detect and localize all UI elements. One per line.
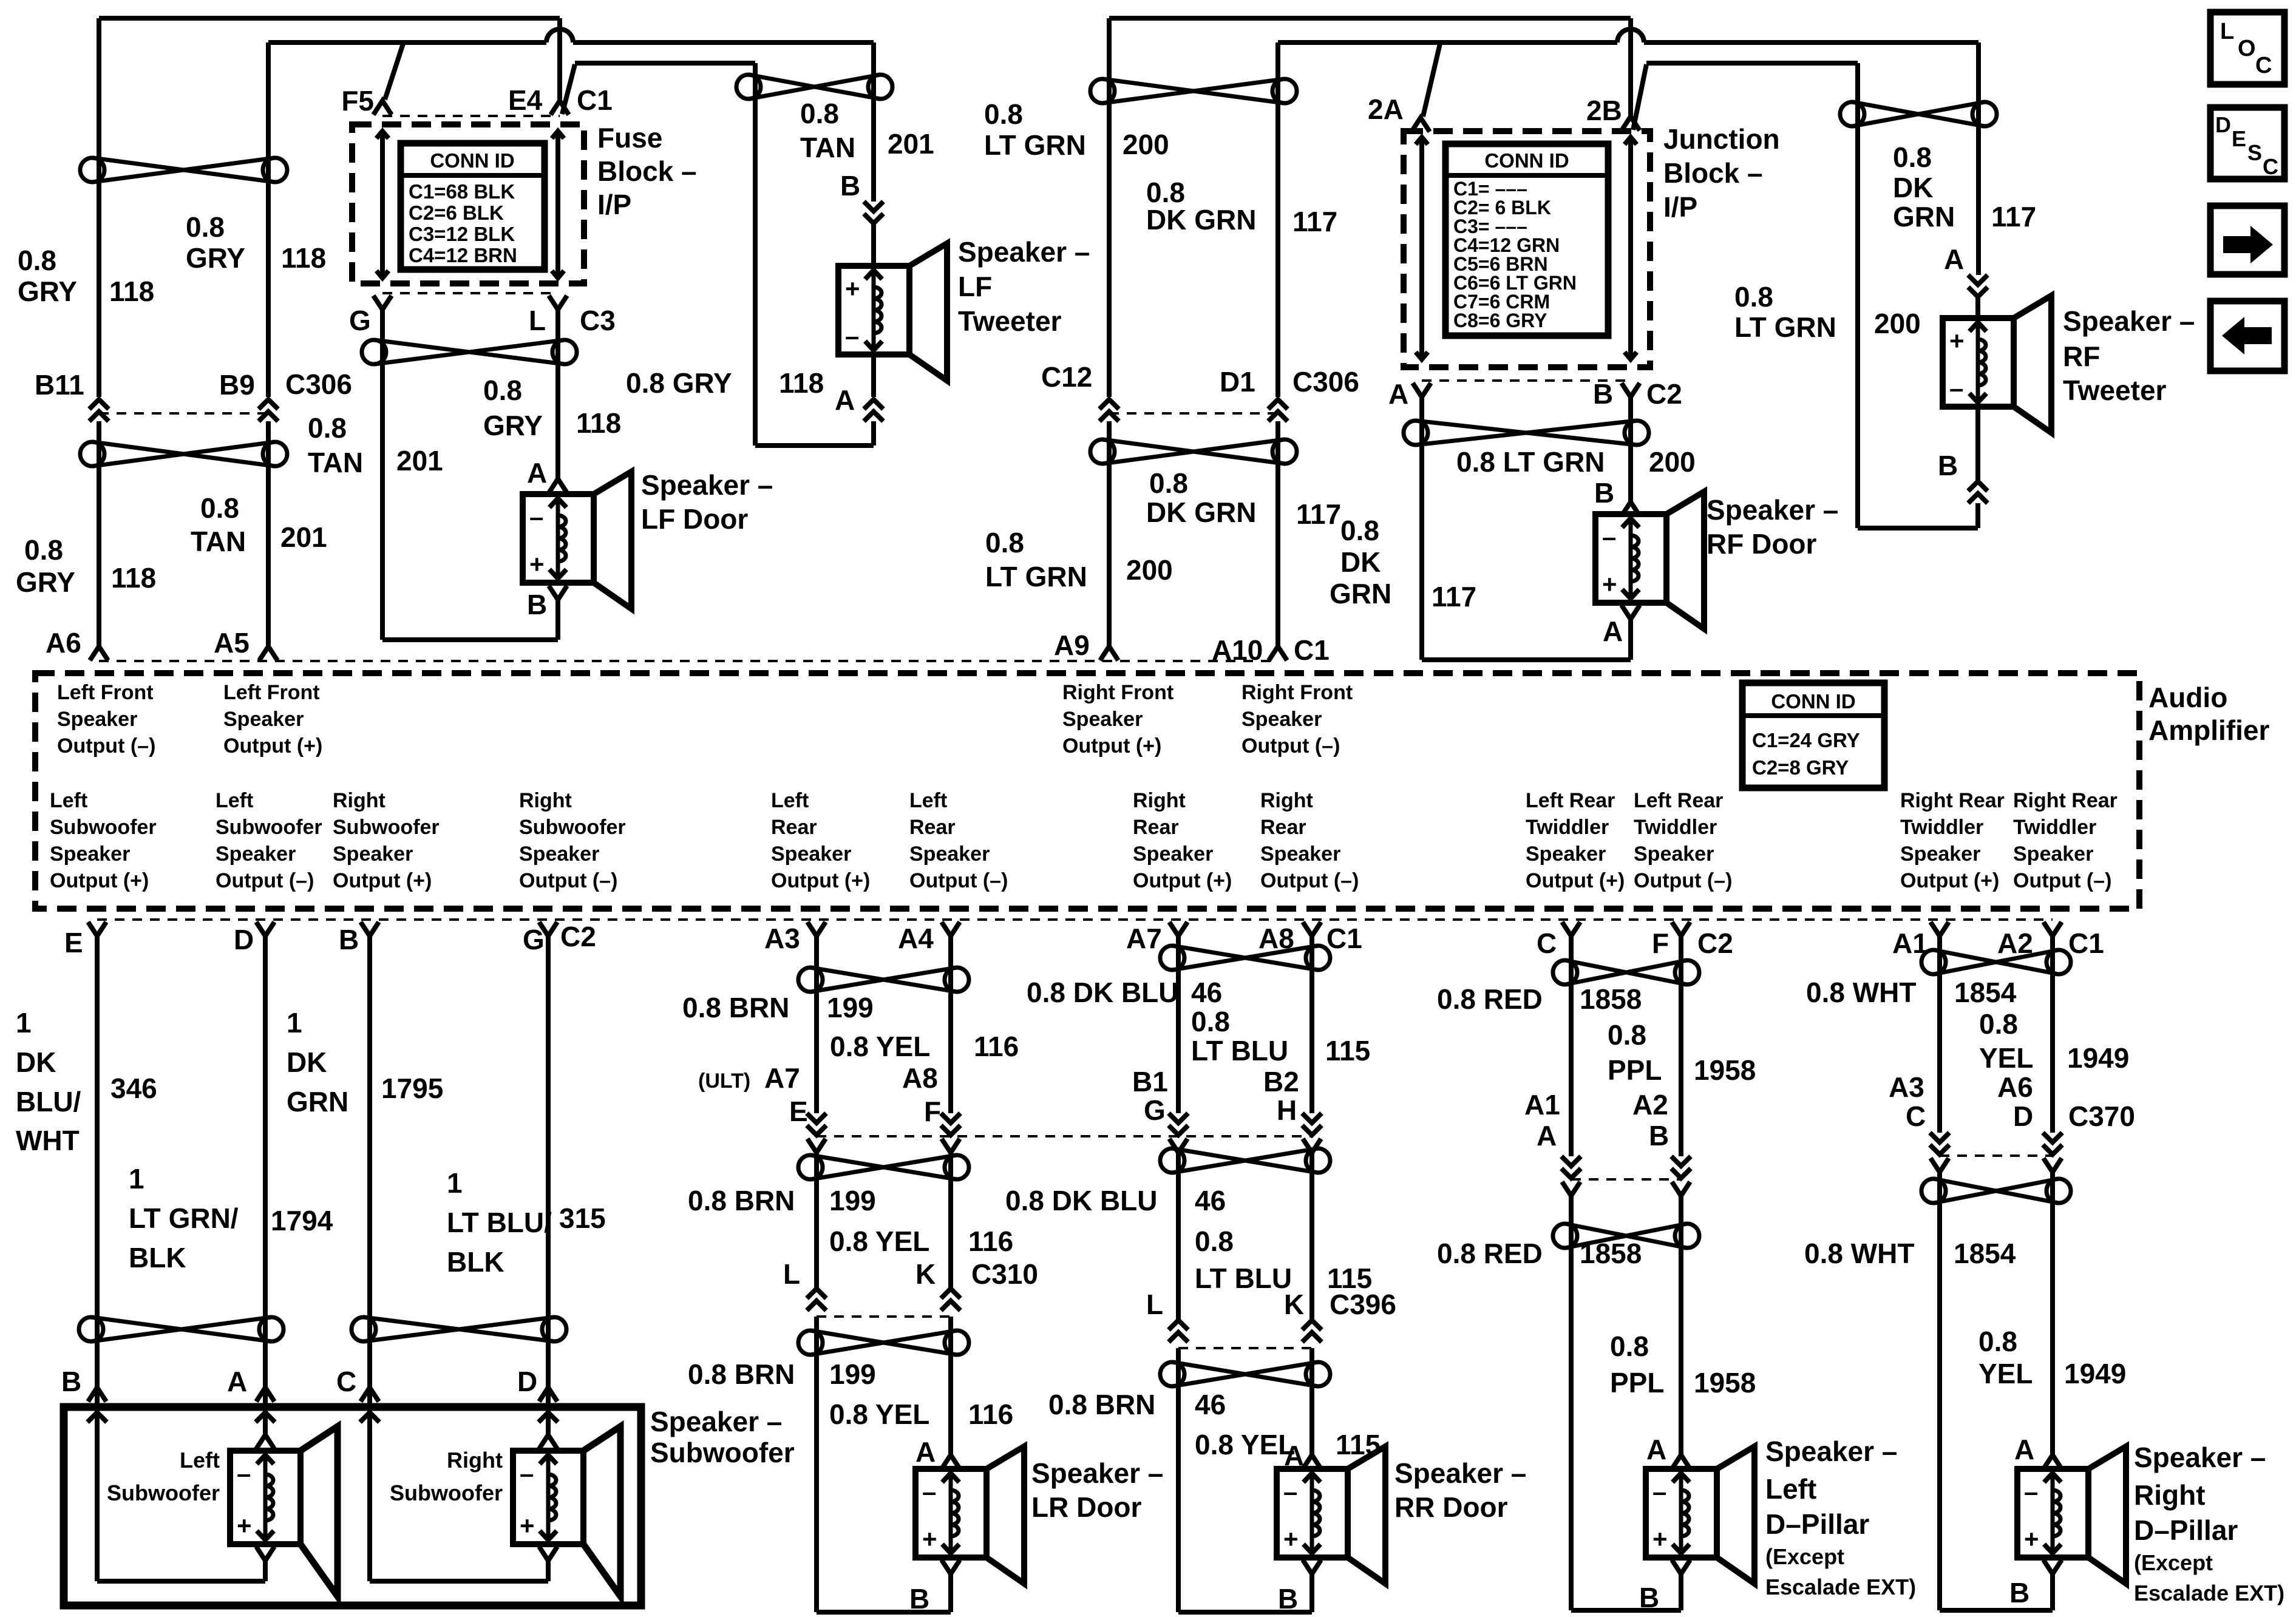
svg-text:C2=8 GRY: C2=8 GRY xyxy=(1752,756,1849,779)
svg-text:Right Front: Right Front xyxy=(1062,681,1173,704)
svg-text:1958: 1958 xyxy=(1694,1054,1756,1086)
wire 0.8 GRY 118 horizontal run to tweeter return xyxy=(575,61,755,66)
svg-text:YEL: YEL xyxy=(1979,1042,2033,1074)
speaker Right Subwoofer xyxy=(513,1426,620,1596)
svg-text:0.8: 0.8 xyxy=(308,412,347,444)
svg-text:Audio: Audio xyxy=(2148,682,2227,713)
svg-text:D: D xyxy=(517,1366,537,1397)
wire 1 LT GRN/BLK 1794 [D] xyxy=(263,936,268,1434)
svg-text:GRY: GRY xyxy=(16,566,75,598)
svg-text:Speaker: Speaker xyxy=(57,708,137,731)
svg-text:Right: Right xyxy=(333,789,385,812)
svg-text:G: G xyxy=(349,305,371,336)
wire 0.8 DK BLU 46 segment A7-G xyxy=(1176,936,1181,1113)
svg-text:GRY: GRY xyxy=(483,410,543,441)
svg-text:DK GRN: DK GRN xyxy=(1146,497,1256,528)
svg-text:GRN: GRN xyxy=(287,1086,348,1117)
svg-text:Speaker –: Speaker – xyxy=(650,1406,782,1437)
svg-text:Twiddler: Twiddler xyxy=(2013,816,2096,839)
junction block cavity 2A fork xyxy=(1411,118,1430,132)
svg-text:Left: Left xyxy=(771,789,809,812)
amp cavity C fork xyxy=(1562,922,1580,936)
twisted pair LT GRN/DK GRN upper xyxy=(1090,79,1297,103)
twisted pair DK BLU/LT BLU RR segment 1 xyxy=(1160,946,1330,970)
svg-text:H: H xyxy=(1277,1094,1297,1126)
speaker Left Subwoofer xyxy=(230,1426,338,1596)
svg-text:1: 1 xyxy=(287,1007,302,1039)
svg-text:Output (–): Output (–) xyxy=(1634,869,1732,892)
RF door pin B fork xyxy=(1622,502,1640,516)
svg-text:K: K xyxy=(915,1258,936,1290)
svg-text:–: – xyxy=(1602,523,1616,551)
svg-text:Output (+): Output (+) xyxy=(333,869,432,892)
wire 0.8 TAN 201 tweeter feed from bus xyxy=(871,42,876,202)
svg-text:Output (+): Output (+) xyxy=(1900,869,1999,892)
wire 0.8 GRY 118 vertical to LF tweeter loop xyxy=(753,63,758,446)
svg-text:46: 46 xyxy=(1195,1185,1226,1216)
svg-text:0.8: 0.8 xyxy=(1893,141,1932,173)
wire 0.8 RED 1858 segment A-B pillar xyxy=(1569,1196,1574,1610)
svg-text:Right Rear: Right Rear xyxy=(1900,789,2005,812)
twisted pair GRY/TAN lower left xyxy=(80,442,287,466)
cavity C fork below xyxy=(1931,1158,1949,1172)
svg-text:–: – xyxy=(2024,1477,2038,1506)
svg-text:0.8: 0.8 xyxy=(1979,1008,2018,1040)
slash from E4 to 0.8 GRY 118 wire xyxy=(562,64,575,114)
cavity H fork below xyxy=(1303,1139,1321,1153)
svg-text:C2: C2 xyxy=(1697,927,1733,959)
svg-text:Speaker –: Speaker – xyxy=(1394,1457,1526,1489)
svg-text:0.8 BRN: 0.8 BRN xyxy=(682,992,789,1023)
left subwoofer return bottom run xyxy=(97,1579,265,1584)
svg-text:LT GRN/: LT GRN/ xyxy=(129,1202,239,1234)
svg-text:Left: Left xyxy=(909,789,947,812)
speaker Left D-Pillar xyxy=(1646,1446,1754,1584)
svg-text:B: B xyxy=(61,1366,81,1397)
svg-text:A6: A6 xyxy=(46,627,81,659)
wire 0.8 GRY 118 segment B11 upper xyxy=(97,18,101,397)
junction block dashed outline xyxy=(1404,131,1650,367)
LR door pin A fork xyxy=(942,1455,960,1469)
svg-text:Speaker –: Speaker – xyxy=(1031,1457,1163,1489)
cavity A2 fork below xyxy=(1672,1182,1690,1196)
svg-text:C306: C306 xyxy=(1292,366,1359,398)
svg-text:199: 199 xyxy=(829,1185,876,1216)
svg-text:Left Front: Left Front xyxy=(57,681,154,704)
svg-text:Twiddler: Twiddler xyxy=(1900,816,1983,839)
wire 1 DK BLU/WHT 346 [E] xyxy=(95,936,100,1581)
svg-text:Output (+): Output (+) xyxy=(1526,869,1625,892)
wire 0.8 BRN 199 segment A3-E xyxy=(814,936,819,1113)
legend box arrow left xyxy=(2210,301,2284,371)
svg-text:Subwoofer: Subwoofer xyxy=(333,816,440,839)
wire 0.8 DK GRN 117 segment D1 upper xyxy=(1275,42,1280,397)
svg-text:–: – xyxy=(1652,1477,1666,1506)
svg-text:Output (–): Output (–) xyxy=(57,734,155,758)
svg-text:–: – xyxy=(1949,374,1963,402)
junction block internal 2B circuit arrow xyxy=(1628,137,1633,359)
svg-text:LT BLU: LT BLU xyxy=(1191,1035,1288,1066)
fuse block cavity F5 fork xyxy=(373,101,392,115)
amp cavity A3 fork xyxy=(807,922,826,936)
wire 0.8 YEL 115 segment K-A xyxy=(1309,1348,1314,1455)
svg-text:C: C xyxy=(2255,53,2272,78)
svg-text:Subwoofer: Subwoofer xyxy=(216,816,322,839)
svg-text:Speaker: Speaker xyxy=(223,708,304,731)
svg-text:A5: A5 xyxy=(214,627,250,659)
svg-text:Subwoofer: Subwoofer xyxy=(390,1480,503,1505)
svg-text:LT GRN: LT GRN xyxy=(984,129,1086,161)
svg-text:B: B xyxy=(1593,378,1613,410)
svg-text:Block –: Block – xyxy=(1663,157,1763,189)
svg-text:CONN ID: CONN ID xyxy=(1484,149,1569,172)
speaker LF Door xyxy=(523,472,631,609)
svg-text:–: – xyxy=(237,1459,251,1488)
svg-text:A: A xyxy=(1944,243,1964,275)
svg-text:A9: A9 xyxy=(1054,629,1090,661)
svg-text:B1: B1 xyxy=(1132,1066,1168,1097)
svg-text:C1=68 BLK: C1=68 BLK xyxy=(409,180,515,203)
amp connector C1 face dashed line xyxy=(99,660,1278,662)
amp cavity A1 fork xyxy=(1931,922,1949,936)
amp cavity F fork xyxy=(1672,922,1690,936)
wire 0.8 YEL 116 segment F-K xyxy=(948,1153,953,1287)
svg-text:1: 1 xyxy=(129,1163,144,1195)
svg-text:0.8: 0.8 xyxy=(1978,1326,2017,1357)
svg-text:Output (–): Output (–) xyxy=(909,869,1008,892)
twisted pair GRY/TAN tweeter feed xyxy=(736,75,892,99)
svg-text:0.8 WHT: 0.8 WHT xyxy=(1804,1238,1914,1269)
twisted pair BRN/LT BLU RR segment 2 xyxy=(1160,1148,1330,1173)
svg-text:Left Front: Left Front xyxy=(223,681,320,704)
amp cavity E fork xyxy=(88,922,106,936)
svg-text:0.8: 0.8 xyxy=(186,211,225,243)
connector C310 cavity L chevrons xyxy=(807,1289,826,1310)
svg-text:Left: Left xyxy=(180,1448,220,1473)
svg-text:Escalade EXT): Escalade EXT) xyxy=(2134,1581,2284,1605)
wire 0.8 YEL 1949 segment A2-A6 xyxy=(2050,936,2055,1133)
svg-text:C1: C1 xyxy=(2068,927,2104,959)
connector A1 arrows xyxy=(1561,1156,1581,1178)
right subwoofer return bottom run xyxy=(370,1579,548,1584)
svg-text:A: A xyxy=(1603,615,1623,647)
svg-text:A: A xyxy=(527,457,547,489)
fuse block cavity E4 fork xyxy=(551,101,569,115)
wire 0.8 LT GRN 200 RF tweeter return column xyxy=(1855,63,1860,528)
svg-text:C8=6 GRY: C8=6 GRY xyxy=(1453,310,1547,331)
svg-text:Speaker: Speaker xyxy=(1526,842,1606,866)
svg-text:Right: Right xyxy=(1260,789,1313,812)
svg-text:D–Pillar: D–Pillar xyxy=(1765,1508,1869,1540)
left subwoofer pin bottom wire xyxy=(263,1559,268,1581)
svg-text:A: A xyxy=(1284,1440,1304,1471)
svg-text:0.8: 0.8 xyxy=(1195,1225,1234,1257)
svg-text:C396: C396 xyxy=(1330,1289,1396,1320)
svg-text:C310: C310 xyxy=(971,1258,1038,1290)
svg-text:Right Front: Right Front xyxy=(1241,681,1353,704)
svg-text:L: L xyxy=(783,1258,800,1290)
svg-text:A: A xyxy=(1646,1434,1666,1465)
svg-text:C3: C3 xyxy=(580,305,616,336)
amp cavity A4 fork xyxy=(942,922,960,936)
fuse block CONN ID table xyxy=(401,143,545,269)
svg-text:Speaker: Speaker xyxy=(1133,842,1213,866)
svg-text:117: 117 xyxy=(1432,581,1476,612)
svg-text:O: O xyxy=(2238,36,2256,61)
svg-text:DK GRN: DK GRN xyxy=(1146,204,1256,236)
svg-text:–: – xyxy=(529,503,543,531)
svg-text:Output (+): Output (+) xyxy=(1133,869,1232,892)
svg-text:Right Rear: Right Rear xyxy=(2013,789,2118,812)
svg-text:TAN: TAN xyxy=(800,132,855,163)
svg-text:B: B xyxy=(1649,1120,1669,1151)
svg-text:CONN ID: CONN ID xyxy=(1771,690,1855,713)
svg-text:A7: A7 xyxy=(1126,923,1162,954)
svg-text:0.8 GRY: 0.8 GRY xyxy=(626,367,732,399)
svg-text:Rear: Rear xyxy=(771,816,817,839)
wire 0.8 LT GRN 200 horizontal to RF column xyxy=(1646,61,1858,66)
svg-text:A: A xyxy=(1388,378,1408,410)
svg-text:–: – xyxy=(845,322,859,350)
svg-text:GRN: GRN xyxy=(1330,578,1391,609)
svg-text:Speaker: Speaker xyxy=(1241,708,1322,731)
svg-text:200: 200 xyxy=(1123,129,1169,160)
svg-text:Output (–): Output (–) xyxy=(216,869,314,892)
svg-text:K: K xyxy=(1284,1289,1304,1320)
junction cavity B fork xyxy=(1622,383,1640,397)
twisted pair BRN/YEL LR segment 3 xyxy=(798,1331,969,1355)
svg-text:116: 116 xyxy=(974,1031,1019,1062)
svg-text:D: D xyxy=(2215,112,2231,137)
svg-text:Speaker –: Speaker – xyxy=(958,236,1090,268)
svg-text:A: A xyxy=(1537,1120,1557,1151)
svg-text:1854: 1854 xyxy=(1954,1238,2016,1269)
svg-text:YEL: YEL xyxy=(1978,1358,2033,1389)
svg-text:E: E xyxy=(64,927,83,958)
LR door return bottom run xyxy=(817,1610,951,1615)
wire 0.8 BRN 46 segment G-L xyxy=(1176,1153,1181,1319)
svg-text:0.8: 0.8 xyxy=(984,98,1023,130)
svg-text:0.8 BRN: 0.8 BRN xyxy=(688,1185,795,1216)
twisted pair BRN/YEL RR segment 3 xyxy=(1160,1362,1330,1386)
svg-text:115: 115 xyxy=(1325,1035,1370,1066)
slash 2A from DK GRN bus xyxy=(1423,44,1440,117)
svg-text:Right: Right xyxy=(519,789,572,812)
fuse block connector face dashed line F5-E4 xyxy=(382,115,560,117)
speaker RR Door xyxy=(1277,1446,1385,1584)
connector C306 cavity B11 chevrons xyxy=(89,399,109,421)
amplifier CONN ID table xyxy=(1742,683,1884,788)
svg-text:–: – xyxy=(922,1477,936,1506)
svg-text:G: G xyxy=(523,924,545,955)
junction block output face dashed A-B xyxy=(1422,379,1631,382)
svg-text:Output (–): Output (–) xyxy=(1241,734,1340,758)
svg-text:Right: Right xyxy=(447,1448,503,1473)
svg-text:0.8 RED: 0.8 RED xyxy=(1437,1238,1543,1269)
fuse block output face dashed line G-L xyxy=(382,292,558,294)
svg-text:0.8 YEL: 0.8 YEL xyxy=(829,1225,929,1257)
svg-text:A6: A6 xyxy=(1997,1071,2033,1103)
svg-text:Right: Right xyxy=(2134,1479,2206,1511)
amp connector C1 cavity A5 fork xyxy=(259,646,277,660)
svg-text:B: B xyxy=(339,924,359,955)
svg-text:200: 200 xyxy=(1649,446,1696,478)
wire 0.8 YEL 116 segment K-A xyxy=(948,1317,953,1455)
svg-text:G: G xyxy=(1144,1094,1166,1126)
connector F arrows xyxy=(941,1113,960,1135)
speaker LF Tweeter xyxy=(838,243,947,381)
speaker RF Tweeter xyxy=(1943,296,2051,433)
svg-text:BLK: BLK xyxy=(447,1246,504,1278)
wire 0.8 RED 1858 segment C-A1 xyxy=(1569,936,1574,1156)
wire 0.8 DK GRN 117 from junction A down xyxy=(1419,397,1424,660)
RF door return bottom run xyxy=(1422,657,1631,662)
subwoofer B chevron inside enclosure xyxy=(87,1412,107,1422)
svg-text:D–Pillar: D–Pillar xyxy=(2134,1514,2238,1546)
svg-text:Speaker: Speaker xyxy=(771,842,851,866)
svg-text:2A: 2A xyxy=(1368,93,1404,125)
svg-text:1795: 1795 xyxy=(381,1073,443,1104)
wire 0.8 TAN 201 from G down to LF door return xyxy=(380,310,385,640)
svg-text:RF: RF xyxy=(2063,341,2100,372)
RF tweeter return bottom run xyxy=(1858,526,1978,531)
subwoofer D fork above enclosure xyxy=(539,1388,557,1402)
svg-text:A: A xyxy=(227,1366,247,1397)
svg-text:C3=12 BLK: C3=12 BLK xyxy=(409,223,515,245)
svg-text:D: D xyxy=(234,924,254,955)
svg-text:Output (+): Output (+) xyxy=(50,869,149,892)
svg-text:A10: A10 xyxy=(1212,634,1263,666)
wire left-front (-) top bus from B11 to fuse block C1/E4 xyxy=(99,16,560,21)
svg-text:0.8: 0.8 xyxy=(483,375,522,406)
svg-text:118: 118 xyxy=(576,407,621,439)
svg-text:Escalade EXT): Escalade EXT) xyxy=(1765,1575,1916,1599)
audio amplifier dashed outline xyxy=(35,673,2139,909)
svg-text:Speaker: Speaker xyxy=(1062,708,1143,731)
svg-text:C2: C2 xyxy=(560,921,596,952)
svg-text:0.8 LT GRN: 0.8 LT GRN xyxy=(1456,446,1605,478)
connector A1/A2 dashed line xyxy=(1571,1178,1681,1181)
svg-text:1858: 1858 xyxy=(1580,1238,1642,1269)
svg-text:A: A xyxy=(915,1436,936,1468)
twisted pair subwoofer left pair xyxy=(79,1317,284,1341)
svg-text:2B: 2B xyxy=(1586,95,1622,126)
wire drop from top bus into fuse block E4 xyxy=(557,18,562,100)
svg-text:0.8: 0.8 xyxy=(200,492,239,524)
svg-text:0.8 YEL: 0.8 YEL xyxy=(829,1398,929,1430)
svg-text:+: + xyxy=(1949,327,1965,355)
svg-text:199: 199 xyxy=(829,1358,876,1390)
connector E/F dashed line xyxy=(817,1135,1312,1137)
cavity E fork below xyxy=(807,1139,826,1153)
twisted pair subwoofer right pair xyxy=(352,1317,566,1341)
svg-text:C: C xyxy=(2263,154,2278,179)
connector C396 dashed line xyxy=(1178,1347,1312,1349)
svg-text:117: 117 xyxy=(1292,206,1337,237)
svg-text:L: L xyxy=(1146,1289,1163,1320)
left D-pillar pin B fork xyxy=(1672,1560,1690,1574)
svg-text:B: B xyxy=(527,589,547,620)
connector C306 cavity B9 chevrons xyxy=(259,399,278,421)
svg-text:+: + xyxy=(922,1525,937,1553)
svg-text:117: 117 xyxy=(1296,498,1341,530)
wire 0.8 GRY 118 segment B11-A6 xyxy=(97,421,101,645)
speaker LR Door xyxy=(915,1446,1024,1584)
connector A6 arrows xyxy=(2043,1133,2062,1154)
svg-text:1: 1 xyxy=(447,1167,463,1199)
LF tweeter pin B arrows xyxy=(864,202,883,223)
LR door pin B fork xyxy=(942,1560,960,1574)
svg-text:0.8: 0.8 xyxy=(800,98,839,129)
svg-text:Speaker: Speaker xyxy=(1260,842,1340,866)
connector H arrows xyxy=(1302,1113,1322,1135)
twisted pair DK GRN/LT GRN junction outputs xyxy=(1404,421,1649,445)
svg-text:0.8: 0.8 xyxy=(1149,467,1188,499)
legend box LOC xyxy=(2210,12,2284,84)
svg-text:B: B xyxy=(909,1583,929,1615)
svg-text:A7: A7 xyxy=(764,1062,800,1094)
svg-text:Left: Left xyxy=(216,789,253,812)
svg-text:0.8 BRN: 0.8 BRN xyxy=(688,1358,795,1390)
svg-text:C1=24 GRY: C1=24 GRY xyxy=(1752,729,1860,751)
RF tweeter pin B wire xyxy=(1975,407,1980,480)
wire right-front top bus C12 to junction 2B xyxy=(1109,16,1631,21)
svg-text:0.8 YEL: 0.8 YEL xyxy=(1195,1429,1295,1460)
svg-text:1958: 1958 xyxy=(1694,1367,1756,1398)
legend box arrow right xyxy=(2210,206,2284,274)
connector C306 dashed line right xyxy=(1109,412,1278,415)
svg-text:1949: 1949 xyxy=(2067,1042,2129,1074)
svg-text:C2: C2 xyxy=(1646,378,1682,410)
twisted pair WHT/YEL segment 2 xyxy=(1921,1179,2071,1203)
slash 2B to LT GRN wire xyxy=(1633,64,1646,130)
svg-text:1949: 1949 xyxy=(2064,1358,2126,1389)
wire 0.8 TAN 201 segment B9 upper xyxy=(266,42,271,397)
svg-text:Output (–): Output (–) xyxy=(2013,869,2111,892)
svg-text:115: 115 xyxy=(1336,1429,1381,1460)
subwoofer enclosure box xyxy=(64,1407,641,1605)
svg-text:B: B xyxy=(1938,450,1958,481)
amp cavity A2 fork xyxy=(2043,922,2062,936)
connector C396 cavity L chevrons xyxy=(1169,1320,1188,1342)
subwoofer C fork above enclosure xyxy=(361,1388,379,1402)
cavity F fork below xyxy=(942,1139,960,1153)
subwoofer A chevron inside enclosure xyxy=(256,1412,275,1422)
amp cavity A7 fork xyxy=(1169,922,1187,936)
svg-text:Output (–): Output (–) xyxy=(519,869,617,892)
amp connector C1 cavity A10 fork xyxy=(1269,646,1287,660)
right D-pillar return bottom run xyxy=(1940,1608,2053,1613)
svg-text:+: + xyxy=(1602,570,1617,598)
svg-text:0.8: 0.8 xyxy=(18,245,56,276)
svg-text:GRY: GRY xyxy=(18,276,77,307)
svg-text:0.8: 0.8 xyxy=(24,534,63,566)
svg-text:Speaker –: Speaker – xyxy=(641,469,773,501)
svg-text:S: S xyxy=(2247,140,2262,165)
svg-text:BLU/: BLU/ xyxy=(16,1086,81,1117)
svg-text:B11: B11 xyxy=(35,369,84,401)
svg-text:0.8 DK BLU: 0.8 DK BLU xyxy=(1027,977,1178,1008)
svg-text:C12: C12 xyxy=(1041,361,1092,393)
svg-text:Rear: Rear xyxy=(1133,816,1179,839)
svg-text:Rear: Rear xyxy=(1260,816,1306,839)
svg-text:46: 46 xyxy=(1195,1389,1226,1420)
svg-text:1858: 1858 xyxy=(1580,983,1642,1015)
LF door speaker pin B wire xyxy=(555,600,560,640)
svg-text:C370: C370 xyxy=(2068,1100,2135,1132)
svg-text:1: 1 xyxy=(16,1007,32,1039)
subwoofer B fork above enclosure xyxy=(88,1388,106,1402)
